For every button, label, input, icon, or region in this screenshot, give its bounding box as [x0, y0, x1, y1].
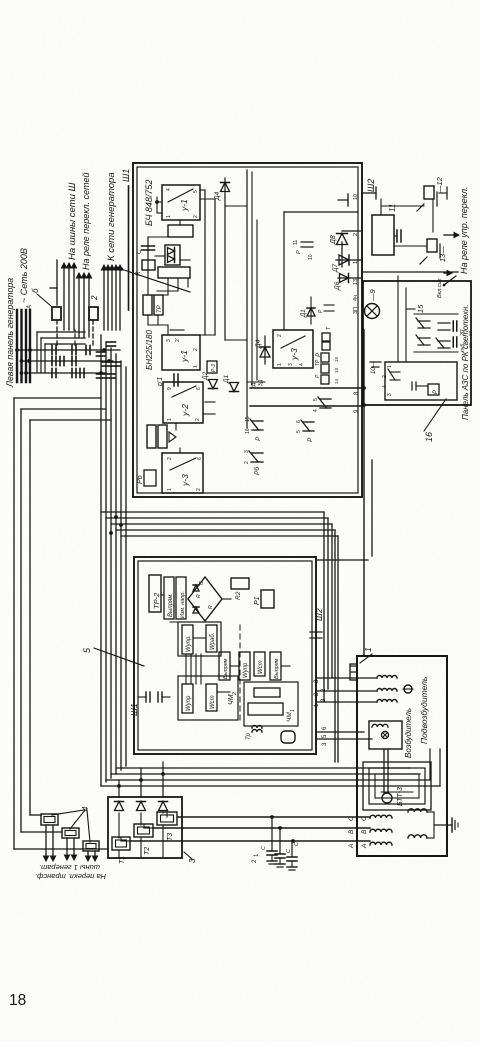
svg-text:С: С — [261, 846, 267, 850]
svg-text:—9: —9 — [368, 289, 377, 303]
capacitor С — [147, 237, 149, 272]
subunit frame ЧМ1 — [244, 682, 298, 726]
box Выпрям изм напр — [164, 577, 174, 619]
wires upper column down to ТР — [167, 278, 169, 295]
net bus 9Д — [250, 405, 362, 407]
relay Рб box — [144, 470, 156, 486]
svg-text:у-2: у-2 — [180, 404, 190, 417]
svg-text:Ш1: Ш1 — [129, 703, 139, 716]
svg-text:4: 4 — [313, 409, 319, 412]
svg-text:Wупр.: Wупр. — [186, 635, 192, 652]
svg-text:2': 2' — [175, 338, 181, 342]
transformer Т3 — [157, 812, 177, 825]
stubs from boxes to arrows — [46, 824, 50, 826]
contact Р3 b — [303, 430, 314, 432]
capacitor C phase wires — [271, 817, 273, 851]
svg-text:Рб: Рб — [253, 467, 261, 475]
resistor R2 — [231, 578, 249, 589]
amplifier у-3 — [162, 453, 203, 493]
svg-text:1: 1 — [277, 363, 283, 366]
svg-text:Д7: Д7 — [332, 263, 339, 273]
svg-text:Панель АЗС по РК светотехн.: Панель АЗС по РК светотехн. — [461, 304, 470, 420]
contact Рб — [251, 461, 263, 463]
contact Р3 a — [320, 407, 331, 409]
svg-text:Рб: Рб — [136, 474, 144, 484]
winding W раб — [206, 625, 217, 652]
diode Д6 — [338, 277, 362, 279]
transformer unit box 3 — [108, 797, 182, 858]
winding W ст (left) — [206, 684, 217, 711]
svg-text:~ Сеть 200В: ~ Сеть 200В — [19, 248, 29, 303]
switch box 4a — [41, 814, 58, 825]
winding W упр (left) — [182, 684, 193, 713]
svg-text:13—: 13— — [438, 246, 447, 262]
exciter edge tab box — [350, 664, 357, 680]
svg-text:Д1: Д1 — [223, 374, 230, 384]
svg-text:16: 16 — [424, 432, 434, 442]
phase bus line C — [178, 816, 370, 818]
svg-text:б: б — [31, 288, 40, 293]
contactor 13 — [427, 239, 437, 252]
svg-text:Wст: Wст — [258, 660, 264, 674]
grid corner wires — [36, 332, 38, 372]
svg-text:ТР: ТР — [315, 359, 321, 366]
dashed divider — [239, 622, 241, 720]
svg-text:Ш2: Ш2 — [314, 608, 324, 621]
relay contacts Р1 — [322, 342, 330, 350]
svg-text:1: 1 — [290, 709, 296, 712]
tiny contacts near 3П — [324, 310, 334, 312]
svg-text:13: 13 — [353, 279, 359, 285]
output arrows group a — [45, 825, 47, 858]
svg-text:4: 4 — [382, 385, 388, 388]
svg-text:15: 15 — [416, 304, 425, 313]
wires БЧ to БН column — [170, 329, 184, 331]
svg-text:4ч: 4ч — [353, 295, 359, 301]
svg-text:Т1: Т1 — [119, 856, 126, 864]
svg-text:Р: Р — [255, 436, 262, 441]
rectifier Выпрям (mid2) — [270, 652, 281, 680]
relay Р-3 — [207, 361, 217, 373]
svg-text:14: 14 — [334, 378, 339, 384]
svg-text:R: R — [208, 605, 214, 609]
svg-text:Wраб.: Wраб. — [210, 633, 216, 650]
amplifier у-1 (БН) — [162, 335, 200, 370]
svg-text:18: 18 — [9, 992, 26, 1009]
svg-text:Тр: Тр — [246, 733, 252, 740]
subexciter coil 2 — [328, 690, 377, 692]
svg-text:ТР-2: ТР-2 — [152, 592, 161, 609]
diode bridge — [188, 577, 222, 621]
svg-text:16: 16 — [245, 428, 251, 434]
svg-text:6: 6 — [197, 457, 203, 460]
svg-text:А: А — [27, 305, 33, 310]
svg-text:Wупр: Wупр — [186, 695, 192, 711]
vertical line to На реле упр — [362, 271, 458, 273]
indicator lamp 9 — [365, 304, 380, 319]
shaft circle — [382, 793, 392, 803]
transformer ТР (mid) — [147, 425, 156, 448]
svg-text:ТР: ТР — [157, 305, 163, 313]
Ш2 pin ticks on box5 edge — [310, 631, 322, 633]
svg-text:Д1: Д1 — [301, 309, 307, 318]
diode Д1 — [230, 383, 239, 392]
relay cap Р1/11/10 — [301, 246, 313, 248]
svg-text:2Д: 2Д — [251, 382, 257, 389]
diode c — [162, 762, 164, 797]
exciter field box — [369, 721, 402, 749]
amplifier у-3 (second) — [273, 330, 313, 368]
ground symbol — [434, 824, 452, 826]
diode a — [118, 780, 120, 797]
transformer Т1 — [112, 837, 130, 850]
Ш2 pin 10 stub symbol — [338, 199, 348, 201]
junction dots on panel line — [362, 403, 366, 407]
wires: К сети генератора — [103, 268, 105, 330]
svg-text:Подвозбудитель: Подвозбудитель — [419, 677, 429, 744]
ground coils right — [408, 809, 427, 812]
relay Р2 in panel — [428, 384, 439, 395]
fuse б — [52, 307, 61, 320]
svg-text:1: 1 — [193, 365, 199, 368]
svg-text:2: 2 — [232, 692, 238, 696]
svg-text:у-1: у-1 — [179, 199, 189, 212]
long wires across box1 — [204, 190, 206, 335]
svg-text:2: 2 — [196, 488, 202, 491]
svg-text:Р: Р — [307, 437, 314, 442]
switch box 4b — [62, 828, 79, 838]
svg-text:На реле перекл. сетей: На реле перекл. сетей — [81, 172, 91, 270]
svg-text:С: С — [199, 581, 205, 585]
panel cluster caps — [452, 337, 454, 347]
svg-text:1: 1 — [363, 647, 373, 652]
svg-text:у-3: у-3 — [289, 348, 299, 361]
winding W упр (mid) — [239, 652, 250, 680]
svg-text:Р-3: Р-3 — [211, 364, 217, 372]
svg-text:Выпрям: Выпрям — [274, 658, 280, 679]
diode Д4 (lower) — [264, 336, 266, 364]
left bundle verticals — [101, 785, 440, 787]
left bundle into exciter — [439, 749, 441, 786]
wires у-1a pins up — [157, 212, 162, 214]
svg-text:1: 1 — [167, 488, 173, 491]
wires for 12/13 — [432, 199, 434, 232]
winding W упр (right) — [182, 625, 193, 654]
svg-text:2: 2 — [90, 295, 99, 301]
diode Д2 — [209, 380, 218, 389]
net 2Д wire — [251, 172, 253, 385]
symbol crossed circle — [382, 732, 389, 739]
wires mid column — [205, 401, 215, 403]
rounded box — [281, 731, 295, 743]
capacitor C3 — [287, 856, 297, 858]
winding W ст (mid) — [254, 652, 265, 676]
transformer Т2 — [134, 824, 153, 837]
svg-text:2: 2 — [195, 418, 201, 421]
svg-text:Ш2: Ш2 — [366, 179, 376, 192]
svg-text:Выпрям.: Выпрям. — [168, 593, 174, 617]
svg-text:Р: Р — [296, 250, 302, 254]
shaft link lines — [383, 749, 385, 793]
bundle wires to exciter — [323, 512, 325, 701]
generator coil C — [370, 842, 392, 845]
wires: На шины сети III — [63, 266, 65, 330]
svg-text:4: 4 — [166, 188, 172, 191]
svg-text:6: 6 — [196, 387, 202, 390]
svg-text:Р: Р — [433, 390, 439, 394]
small box — [158, 267, 190, 278]
wire box5 corner to panel line — [316, 559, 368, 561]
svg-text:К сети генератора: К сети генератора — [106, 172, 117, 261]
svg-text:19: 19 — [334, 356, 339, 362]
svg-text:1: 1 — [167, 418, 173, 421]
svg-text:А: А — [348, 844, 355, 849]
box5 pin wires down — [316, 677, 332, 679]
svg-text:3: 3 — [387, 393, 393, 396]
svg-text:На перекл. трансф.: На перекл. трансф. — [35, 872, 106, 881]
exciter unit box 1 — [357, 656, 447, 856]
svg-text:5: 5 — [296, 430, 302, 433]
svg-text:шины 1 генерат.: шины 1 генерат. — [39, 863, 100, 872]
unit box 1 inner border — [137, 167, 358, 493]
phase bus line A — [130, 840, 370, 842]
bundle box1-box5 vertical — [101, 511, 324, 513]
unit box 1 outer border — [133, 163, 362, 497]
svg-text:3П: 3П — [353, 307, 359, 314]
svg-text:2: 2 — [244, 461, 250, 464]
svg-text:1: 1 — [353, 261, 359, 264]
component 11 box — [372, 215, 394, 255]
svg-text:5: 5 — [313, 398, 319, 401]
panel 16 box — [363, 281, 471, 405]
far edge long wires — [13, 398, 15, 849]
svg-text:Р1: Р1 — [254, 596, 261, 605]
svg-text:БТТ-3: БТТ-3 — [397, 787, 404, 806]
svg-text:10: 10 — [353, 194, 359, 200]
svg-text:10: 10 — [308, 254, 314, 260]
svg-text:В: В — [348, 829, 355, 834]
peel-off wires to far edge — [14, 397, 101, 399]
connector grid pins — [51, 346, 53, 355]
output arrows group c — [87, 851, 89, 858]
panel inner box — [385, 362, 457, 400]
svg-text:Ш1: Ш1 — [121, 169, 131, 182]
regulator box 5 inner — [138, 561, 312, 750]
panel inner contacts — [390, 379, 400, 381]
subexciter coil 3 — [324, 701, 377, 703]
capacitor C1 — [267, 850, 277, 852]
svg-text:2: 2 — [382, 375, 388, 378]
net 3Д wire — [256, 220, 258, 380]
svg-text:На реле упр. перекл.: На реле упр. перекл. — [459, 186, 469, 274]
generator bus bars (4 thick) — [16, 310, 18, 382]
exciter left edge pin stubs — [351, 671, 357, 673]
phase junction dots — [270, 815, 274, 819]
svg-text:Wупр: Wупр — [243, 662, 249, 678]
svg-text:2: 2 — [193, 348, 199, 351]
transformer ТР (upper) — [143, 295, 152, 315]
switch box 4c — [83, 841, 99, 851]
svg-text:6: 6 — [296, 420, 302, 423]
rect under у-1 — [168, 225, 193, 237]
contact Р3 c — [252, 429, 263, 431]
svg-text:у-3: у-3 — [180, 474, 190, 487]
diode b — [140, 768, 142, 797]
subunit frame upper W pair — [178, 622, 221, 656]
box5 internal wires — [185, 654, 187, 684]
Ш1 pins on box5 — [145, 692, 147, 702]
svg-text:11: 11 — [388, 204, 397, 212]
rectifier Выпрям (vertical) — [248, 703, 283, 715]
svg-text:2: 2 — [277, 334, 283, 337]
transformer ТР-2 — [149, 575, 161, 612]
svg-text:Д4: Д4 — [255, 339, 262, 349]
diode Д7 — [336, 259, 362, 261]
diode Д4 — [224, 178, 226, 197]
svg-text:Д2: Д2 — [202, 371, 209, 381]
svg-text:1: 1 — [387, 365, 393, 368]
svg-text:БН225/180: БН225/180 — [145, 330, 154, 370]
svg-text:Д6: Д6 — [334, 281, 341, 291]
connector grid extra pins — [85, 346, 87, 355]
symbol circle — [404, 685, 412, 693]
svg-text:3Д: 3Д — [258, 379, 264, 386]
svg-text:2: 2 — [167, 457, 173, 460]
wires in upper column — [155, 255, 165, 257]
svg-text:С: С — [286, 849, 292, 853]
contactor 12 — [424, 186, 434, 199]
svg-text:Левая панель генератора: Левая панель генератора — [5, 278, 15, 388]
svg-text:13: 13 — [334, 367, 339, 373]
resistor R — [142, 260, 155, 270]
svg-text:2: 2 — [193, 215, 199, 218]
svg-text:4: 4 — [299, 363, 305, 366]
svg-text:1: 1 — [166, 215, 172, 218]
generator coil A — [370, 815, 392, 818]
label На перекл. трансф. (rotated 180) — [35, 863, 106, 881]
relay contacts Р2 ТР2 — [321, 375, 329, 384]
svg-text:На шины сети Ш: На шины сети Ш — [67, 182, 78, 260]
capacitor C2b — [275, 853, 285, 855]
svg-text:Wст: Wст — [210, 695, 216, 709]
net bus 8Д — [250, 387, 362, 389]
phase taps from T-box — [177, 816, 178, 818]
svg-text:БЧ 848/752: БЧ 848/752 — [144, 180, 154, 226]
panel cluster contacts — [418, 344, 430, 346]
svg-text:С: С — [136, 249, 143, 254]
svg-text:С: С — [294, 842, 300, 846]
fuse 2 — [89, 307, 98, 320]
svg-text:у-1: у-1 — [179, 350, 189, 363]
arrow На реле упр — [444, 234, 456, 236]
svg-text:R2: R2 — [235, 591, 242, 600]
output arrows group b — [66, 838, 68, 857]
winding W доб — [254, 688, 280, 697]
amplifier у-1 (БЧ) — [162, 185, 200, 220]
diode pair box — [165, 245, 180, 265]
svg-text:5: 5 — [193, 190, 199, 193]
diode Д1 small — [310, 297, 312, 324]
phase bus line B — [153, 827, 370, 829]
wire along panel — [363, 330, 365, 656]
svg-text:3: 3 — [288, 363, 294, 366]
svg-text:А: А — [361, 844, 368, 849]
svg-text:Возбудитель: Возбудитель — [404, 708, 413, 758]
amplifier у-2 — [163, 382, 203, 423]
subexciter coil 1 — [332, 677, 377, 679]
regulator box 5 outer — [134, 557, 316, 754]
capacitor near р'1 — [173, 374, 175, 386]
stator nested rects — [363, 762, 431, 810]
svg-text:2: 2 — [353, 233, 359, 236]
wires: На реле перекл. сетей — [78, 276, 80, 337]
svg-text:Т3: Т3 — [167, 833, 174, 841]
svg-text:Т2: Т2 — [144, 847, 151, 855]
subunit frame ЧМ2 — [178, 676, 238, 720]
svg-text:3: 3 — [244, 450, 250, 453]
svg-text:9: 9 — [167, 387, 173, 390]
svg-text:R: R — [135, 271, 142, 276]
svg-text:Изм. напр.: Изм. напр. — [180, 591, 186, 618]
svg-text:11: 11 — [293, 240, 299, 245]
svg-text:В: В — [361, 829, 368, 834]
vertical stubs — [200, 189, 205, 191]
diode Д8 — [342, 230, 362, 232]
svg-text:ЧМ: ЧМ — [286, 712, 293, 722]
wire bundle from Ш1 to lower section — [100, 335, 102, 786]
junction dots routing — [119, 523, 123, 527]
generator coil B — [370, 829, 392, 832]
connector grid wires — [17, 349, 120, 351]
svg-text:R: R — [196, 594, 202, 598]
relay Р1 box — [261, 590, 274, 608]
T-box left wires — [118, 850, 120, 858]
wire to node 3 — [283, 212, 285, 330]
svg-text:15: 15 — [245, 416, 251, 422]
transformer Тр small — [252, 730, 262, 733]
svg-text:Д8: Д8 — [330, 235, 337, 245]
svg-text:3: 3 — [166, 339, 172, 342]
svg-text:—12: —12 — [435, 176, 444, 194]
rectifier Выпрям (mid) — [219, 652, 230, 680]
